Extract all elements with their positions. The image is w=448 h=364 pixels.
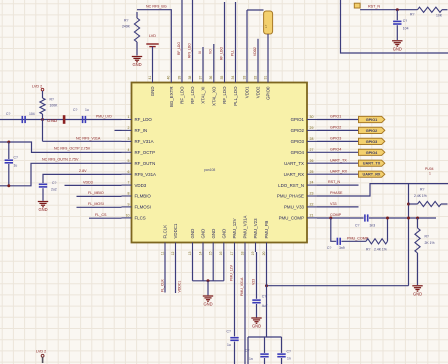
wire riser RF_LDO c bbox=[224, 2, 226, 73]
junction on RF_OCTP net bbox=[7, 141, 10, 144]
svg-text:RF_LDO: RF_LDO bbox=[177, 42, 181, 55]
svg-text:COMP: COMP bbox=[330, 213, 342, 217]
wire L1 to pin 31 bbox=[267, 34, 269, 73]
svg-text:NC RF9_OCTP 2.75V: NC RF9_OCTP 2.75V bbox=[54, 147, 91, 151]
pin 29 GPIO2 bbox=[307, 129, 317, 131]
svg-text:RF_LDO: RF_LDO bbox=[180, 86, 185, 104]
svg-text:RF9_V31A: RF9_V31A bbox=[135, 172, 157, 177]
svg-text:23: 23 bbox=[310, 192, 314, 196]
wire pin 23 PMU_PHASE to right edge bbox=[317, 184, 448, 196]
wire riser XTAL_XI bbox=[202, 47, 204, 73]
junction riser/R5 bbox=[407, 203, 410, 206]
svg-text:39: 39 bbox=[177, 76, 181, 80]
svg-text:BG_EXTR: BG_EXTR bbox=[169, 87, 174, 108]
svg-text:GND: GND bbox=[413, 291, 422, 296]
svg-text:GPIO3: GPIO3 bbox=[291, 139, 305, 144]
pin 37 XTAL_XI bbox=[202, 73, 204, 83]
wire pin 6 RF9_V31A to C4 bbox=[43, 174, 122, 183]
wire branch down bbox=[331, 218, 336, 241]
svg-text:RF_OUTN: RF_OUTN bbox=[135, 161, 156, 166]
svg-text:30: 30 bbox=[310, 115, 314, 119]
pin 40 BG_EXTR bbox=[170, 73, 172, 83]
wire riser RF_LDO b bbox=[192, 0, 194, 73]
svg-text:PLL_LDO: PLL_LDO bbox=[233, 86, 238, 106]
svg-text:19: 19 bbox=[251, 251, 255, 255]
wire return rail y285 bbox=[267, 285, 409, 287]
svg-text:18: 18 bbox=[240, 251, 244, 255]
svg-text:22: 22 bbox=[310, 203, 314, 207]
resistor R3 bbox=[418, 7, 443, 12]
pin 36 XTAL_XO bbox=[213, 73, 215, 83]
svg-text:RF_LDO: RF_LDO bbox=[222, 86, 227, 104]
wire pin 24 LDO_RST_N bbox=[317, 184, 359, 186]
svg-text:29: 29 bbox=[310, 126, 314, 130]
capacitor C3 bbox=[5, 159, 13, 161]
wire to port GPIO4 bbox=[317, 151, 359, 153]
svg-text:1: 1 bbox=[128, 115, 130, 119]
junction R3/C5 bbox=[396, 8, 399, 11]
capacitor C11 bbox=[277, 353, 285, 355]
svg-text:PMU_PHASE: PMU_PHASE bbox=[277, 194, 304, 199]
port GPIO2 bbox=[359, 127, 385, 133]
capacitor C8 bbox=[230, 337, 238, 339]
wire to pin 5 RF_OUTN bbox=[0, 163, 122, 186]
svg-text:FLCS: FLCS bbox=[135, 216, 146, 221]
svg-text:GPIO4: GPIO4 bbox=[291, 150, 305, 155]
wire to port UART_TX bbox=[317, 162, 359, 164]
pin 7 VDD3 bbox=[122, 184, 132, 186]
wire C11 tail bbox=[281, 358, 283, 364]
svg-text:RF_LDO: RF_LDO bbox=[190, 86, 195, 104]
svg-text:R?: R? bbox=[420, 188, 424, 192]
svg-text:FLMBIO: FLMBIO bbox=[135, 194, 152, 199]
svg-text:FL_CLK: FL_CLK bbox=[160, 278, 164, 292]
wire pin 15 gnd bbox=[212, 252, 214, 281]
wire to port GPIO1 bbox=[317, 119, 359, 121]
svg-text:R?: R? bbox=[410, 13, 414, 17]
ground below C9 bbox=[251, 318, 261, 323]
wire C8 down to edge bbox=[234, 342, 236, 364]
junction lower branch A bbox=[329, 217, 332, 220]
wire pin 9 FLMOSI bbox=[77, 206, 122, 208]
svg-text:XTAL_XO: XTAL_XO bbox=[211, 86, 216, 106]
wire stub pin 2 RF_IN bbox=[115, 129, 122, 131]
svg-text:41: 41 bbox=[148, 76, 152, 80]
pin 17 PMU_12V bbox=[234, 243, 236, 253]
svg-text:16: 16 bbox=[219, 251, 223, 255]
svg-text:PMU_12V: PMU_12V bbox=[232, 218, 237, 238]
wire R5 left lead bbox=[409, 203, 418, 205]
svg-text:C?: C? bbox=[227, 330, 231, 334]
wire riser PLL_LDO bbox=[235, 2, 237, 73]
resistor R6 bbox=[415, 228, 420, 253]
pin 41 GND bbox=[152, 73, 154, 83]
wire gnd merge bar bbox=[193, 280, 224, 282]
svg-text:12: 12 bbox=[171, 251, 175, 255]
svg-text:GND: GND bbox=[203, 302, 212, 307]
junction lower branch B bbox=[386, 217, 389, 220]
svg-text:C?: C? bbox=[6, 112, 10, 116]
wire R1 to rail bbox=[42, 114, 44, 120]
pin 15 GND bbox=[212, 243, 214, 253]
svg-text:GPIO3: GPIO3 bbox=[366, 140, 378, 144]
wire pin 13 gnd bbox=[192, 252, 194, 281]
svg-text:1u: 1u bbox=[85, 108, 89, 112]
pin 18 PMU_V31A bbox=[244, 243, 246, 253]
svg-text:2.4K 1%: 2.4K 1% bbox=[374, 247, 387, 251]
pin 22 PMU_V33 bbox=[307, 206, 317, 208]
svg-text:PLL: PLL bbox=[230, 50, 234, 56]
svg-text:NC RF9_BG: NC RF9_BG bbox=[146, 5, 167, 9]
svg-text:36: 36 bbox=[209, 76, 213, 80]
svg-text:R?: R? bbox=[50, 98, 54, 102]
svg-text:3n9: 3n9 bbox=[339, 246, 345, 250]
svg-text:LDO_RST_N: LDO_RST_N bbox=[278, 183, 304, 188]
svg-text:C?: C? bbox=[287, 350, 291, 354]
svg-text:17: 17 bbox=[230, 251, 234, 255]
wire pin 22 PMU_V33 bbox=[317, 206, 359, 208]
wire riser VDD1 bbox=[246, 10, 248, 73]
pin 5 RF_OUTN bbox=[122, 162, 132, 164]
svg-text:1n: 1n bbox=[287, 357, 291, 361]
svg-text:UART_RX: UART_RX bbox=[330, 169, 348, 173]
svg-text:27: 27 bbox=[310, 148, 314, 152]
pin 14 GND bbox=[202, 243, 204, 253]
svg-text:R?: R? bbox=[425, 234, 429, 238]
wire pin 8 FLMBIO bbox=[77, 195, 122, 197]
wire to pin 4 RF_OCTP bbox=[0, 142, 122, 152]
svg-text:25: 25 bbox=[310, 170, 314, 174]
svg-text:PMU_COMP: PMU_COMP bbox=[279, 216, 304, 221]
pin 34 PLL_LDO bbox=[235, 73, 237, 83]
svg-text:XI: XI bbox=[198, 51, 202, 54]
wire C9 to ground bbox=[256, 304, 258, 317]
svg-text:104: 104 bbox=[29, 112, 35, 116]
wire pin 21 PMU_COMP bbox=[317, 217, 364, 219]
capacitor C6 bbox=[364, 214, 366, 221]
svg-text:35: 35 bbox=[220, 76, 224, 80]
ground below chip bbox=[203, 296, 213, 301]
wire pin 18 PMU_V31A bbox=[244, 252, 246, 364]
svg-text:3: 3 bbox=[128, 137, 130, 141]
svg-text:GPIO2: GPIO2 bbox=[291, 128, 305, 133]
svg-text:RST_N: RST_N bbox=[328, 180, 340, 184]
ground below C5 bbox=[392, 41, 402, 46]
svg-text:11: 11 bbox=[160, 251, 164, 255]
svg-text:37: 37 bbox=[198, 76, 202, 80]
svg-text:GPIO0: GPIO0 bbox=[266, 86, 271, 100]
pin 39 RF_LDO bbox=[181, 73, 183, 83]
svg-text:V33: V33 bbox=[330, 202, 337, 206]
pin 24 LDO_RST_N bbox=[307, 184, 317, 186]
svg-text:LVD 2: LVD 2 bbox=[32, 84, 42, 88]
svg-text:10: 10 bbox=[126, 213, 130, 217]
junction node LVD2/R1 bbox=[41, 118, 44, 121]
pin 9 FLMOSI bbox=[122, 206, 132, 208]
wire L-shaped top right bbox=[341, 0, 448, 53]
svg-text:VDD2: VDD2 bbox=[253, 47, 257, 56]
svg-text:GND: GND bbox=[38, 207, 47, 212]
svg-text:PHASE: PHASE bbox=[330, 191, 343, 195]
wire VDD1 to L1 bbox=[247, 9, 264, 11]
svg-text:GPIO1: GPIO1 bbox=[366, 118, 378, 122]
op chip U1 body bbox=[132, 83, 308, 243]
svg-text:8: 8 bbox=[128, 192, 130, 196]
svg-text:UART_TX: UART_TX bbox=[363, 162, 381, 166]
capacitor C4 bbox=[39, 183, 47, 185]
pin 11 FLCLK bbox=[164, 243, 166, 253]
junction gnd merge bbox=[207, 279, 210, 282]
svg-text:GPIO1: GPIO1 bbox=[330, 115, 341, 119]
svg-text:9: 9 bbox=[128, 203, 130, 207]
svg-text:LVD: LVD bbox=[149, 34, 156, 38]
svg-text:R?: R? bbox=[366, 247, 370, 251]
svg-text:240K: 240K bbox=[122, 25, 131, 29]
svg-text:40: 40 bbox=[167, 76, 171, 80]
svg-text:UART_TX: UART_TX bbox=[284, 161, 304, 166]
wire C11 drop bbox=[281, 337, 283, 353]
wire pin 7 VDD3 bbox=[65, 184, 122, 186]
wire node to RF_V31A net bbox=[42, 120, 44, 142]
pin 1 RF_LDO bbox=[122, 119, 132, 121]
svg-text:38: 38 bbox=[188, 76, 192, 80]
svg-text:15: 15 bbox=[209, 251, 213, 255]
svg-text:C?: C? bbox=[52, 181, 56, 185]
resistor R5 bbox=[418, 201, 442, 206]
pin 8 FLMBIO bbox=[122, 195, 132, 197]
pin 20 PMU_FB bbox=[266, 243, 268, 253]
svg-text:RF_LDO: RF_LDO bbox=[135, 117, 153, 122]
svg-text:33: 33 bbox=[242, 76, 246, 80]
svg-text:GND: GND bbox=[47, 118, 58, 123]
svg-text:C?: C? bbox=[73, 108, 77, 112]
port UART_RX bbox=[359, 171, 385, 177]
junction return/PMU_FB bbox=[265, 284, 268, 287]
svg-text:LVD 2: LVD 2 bbox=[36, 349, 46, 353]
junction R6 top bbox=[416, 217, 419, 220]
svg-text:GND: GND bbox=[221, 229, 226, 239]
wire C3 top bbox=[8, 142, 10, 159]
wire riser VDD2 bbox=[257, 39, 259, 73]
pin 13 GND bbox=[192, 243, 194, 253]
svg-text:C?: C? bbox=[327, 246, 331, 250]
svg-text:GND: GND bbox=[252, 324, 261, 329]
svg-text:1u: 1u bbox=[227, 343, 231, 347]
svg-text:100K: 100K bbox=[50, 104, 59, 108]
svg-text:GPIO2: GPIO2 bbox=[366, 129, 378, 133]
wire C6 to R network bbox=[369, 217, 436, 219]
wire pin 16 gnd bbox=[223, 252, 225, 281]
svg-text:PMU_LVD: PMU_LVD bbox=[96, 115, 112, 119]
resistor R1 bbox=[40, 98, 45, 114]
svg-text:V23: V23 bbox=[251, 279, 255, 285]
wire vertical riser x408 bbox=[408, 184, 410, 286]
wire C10 drop bbox=[264, 337, 266, 353]
wire R2 to ground bbox=[136, 42, 138, 56]
svg-text:2: 2 bbox=[128, 126, 130, 130]
pin 6 RF9_V31A bbox=[122, 173, 132, 175]
wire pin 11 FLCLK bbox=[164, 252, 166, 293]
wire to port GPIO3 bbox=[317, 140, 359, 142]
capacitor C10 bbox=[260, 353, 268, 355]
pin 38 RF_LDO bbox=[192, 73, 194, 83]
svg-text:NC RF9_V31A: NC RF9_V31A bbox=[76, 136, 101, 140]
pin 3 RF_V31A bbox=[122, 140, 132, 142]
svg-text:C?: C? bbox=[262, 294, 266, 298]
svg-text:VDDC1: VDDC1 bbox=[178, 281, 182, 293]
svg-text:PMU_V31A: PMU_V31A bbox=[240, 277, 244, 296]
junction on RF_OUTN net bbox=[7, 184, 10, 187]
svg-text:PU04: PU04 bbox=[425, 167, 434, 171]
svg-text:FL_CS: FL_CS bbox=[95, 213, 107, 217]
svg-text:pan108: pan108 bbox=[204, 168, 215, 172]
capacitor C5 bbox=[393, 20, 401, 22]
wire LVD2 to R1 bbox=[42, 91, 44, 98]
svg-text:VDDC1: VDDC1 bbox=[173, 223, 178, 238]
wire R6 top lead bbox=[417, 218, 419, 228]
pin 27 GPIO4 bbox=[307, 151, 317, 153]
pin 35 RF_LDO bbox=[224, 73, 226, 83]
svg-text:PMU_FB: PMU_FB bbox=[264, 221, 269, 239]
pin 32 VDD2 bbox=[257, 73, 259, 83]
svg-text:2.4K 1%: 2.4K 1% bbox=[414, 194, 427, 198]
ground below C4 bbox=[38, 202, 48, 207]
svg-text:GND: GND bbox=[393, 46, 402, 51]
wire to port UART_RX bbox=[317, 173, 359, 175]
capacitor C1 plates bbox=[21, 116, 23, 123]
svg-text:FLMOSI: FLMOSI bbox=[135, 205, 151, 210]
svg-text:1: 1 bbox=[429, 172, 431, 176]
pin 30 GPIO1 bbox=[307, 119, 317, 121]
svg-text:PMU_V31A: PMU_V31A bbox=[243, 215, 248, 238]
svg-text:26: 26 bbox=[310, 159, 314, 163]
svg-text:RST_N: RST_N bbox=[368, 4, 380, 8]
svg-text:XO: XO bbox=[209, 49, 213, 54]
wire R6 to ground bbox=[417, 253, 419, 285]
svg-text:13: 13 bbox=[188, 251, 192, 255]
svg-text:21: 21 bbox=[310, 213, 314, 217]
ferrite bead L1 bbox=[264, 11, 273, 34]
svg-text:1u: 1u bbox=[14, 164, 18, 168]
wire R2 to pin 40 BG_EXTR bbox=[137, 10, 171, 73]
wire to pin 3 RF_V31A bbox=[43, 140, 122, 142]
wire pin 12 VDDC1 bbox=[175, 252, 177, 293]
wire C7 to R4 bbox=[341, 240, 366, 242]
wire riser XTAL_XO bbox=[213, 44, 215, 73]
pin 23 PMU_PHASE bbox=[307, 195, 317, 197]
svg-text:24: 24 bbox=[310, 181, 314, 185]
pin 25 UART_RX bbox=[307, 173, 317, 175]
resistor R2 bbox=[134, 18, 139, 42]
svg-text:3n3: 3n3 bbox=[370, 223, 376, 227]
pin 12 VDDC1 bbox=[175, 243, 177, 253]
wire branch up bbox=[387, 218, 389, 241]
svg-text:C?: C? bbox=[403, 19, 407, 23]
pin 4 RF_OCTP bbox=[122, 151, 132, 153]
svg-text:2u2: 2u2 bbox=[51, 187, 57, 191]
svg-text:C?: C? bbox=[245, 349, 249, 353]
svg-text:UART_RX: UART_RX bbox=[363, 173, 381, 177]
pin 10 FLCS bbox=[122, 217, 132, 219]
wire R5 right lead bbox=[441, 203, 448, 205]
svg-text:GND: GND bbox=[150, 87, 155, 97]
ground below R6 bbox=[412, 286, 422, 291]
svg-text:NC RF9_OUTN 2.75V: NC RF9_OUTN 2.75V bbox=[42, 158, 79, 162]
wire C5 to ground bbox=[396, 25, 398, 40]
svg-text:31: 31 bbox=[263, 76, 267, 80]
no-ERC marker / small port bbox=[354, 3, 360, 8]
svg-text:GND: GND bbox=[201, 229, 206, 239]
svg-text:L?: L? bbox=[264, 24, 268, 28]
wire pin 10 FLCS bbox=[89, 217, 122, 219]
svg-text:20: 20 bbox=[262, 251, 266, 255]
svg-text:PMU_12V: PMU_12V bbox=[229, 264, 233, 281]
svg-text:GPIO3: GPIO3 bbox=[330, 137, 341, 141]
svg-text:FL_MBIO: FL_MBIO bbox=[88, 191, 104, 195]
pin 16 GND bbox=[223, 243, 225, 253]
svg-text:GPIO4: GPIO4 bbox=[366, 151, 378, 155]
svg-text:32: 32 bbox=[253, 76, 257, 80]
svg-text:GPIO4: GPIO4 bbox=[330, 147, 341, 151]
svg-text:UART_TX: UART_TX bbox=[330, 158, 347, 162]
pin 19 PMU_V23 bbox=[255, 243, 257, 253]
capacitor C7 bbox=[336, 238, 338, 245]
svg-text:XTAL_XI: XTAL_XI bbox=[201, 87, 206, 104]
wire R2 top lead bbox=[136, 12, 138, 18]
port GPIO1 bbox=[359, 116, 385, 122]
svg-text:FLCLK: FLCLK bbox=[163, 225, 168, 239]
svg-text:RF_LDO: RF_LDO bbox=[219, 47, 223, 60]
svg-text:RF_V31A: RF_V31A bbox=[135, 139, 154, 144]
capacitor C9 bbox=[252, 299, 260, 301]
pin 33 VDD1 bbox=[246, 73, 248, 83]
svg-text:R?: R? bbox=[124, 19, 128, 23]
wire C3 bottom bbox=[8, 164, 10, 186]
capacitor C2 plates bbox=[82, 116, 84, 123]
wire pin 17 PMU_12V upper bbox=[234, 252, 236, 336]
svg-text:14: 14 bbox=[198, 251, 202, 255]
svg-text:PMU_V23: PMU_V23 bbox=[253, 218, 258, 239]
svg-text:7: 7 bbox=[128, 181, 130, 185]
svg-text:RF_IN: RF_IN bbox=[135, 128, 148, 133]
svg-text:GND: GND bbox=[132, 62, 141, 67]
svg-text:PMU_COMP: PMU_COMP bbox=[347, 236, 369, 240]
svg-text:VDD1: VDD1 bbox=[245, 86, 250, 98]
ground below R2 bbox=[132, 57, 142, 62]
svg-text:C?: C? bbox=[14, 156, 18, 160]
pin 28 GPIO3 bbox=[307, 140, 317, 142]
svg-text:C?: C? bbox=[355, 223, 359, 227]
wire R3 right lead bbox=[442, 9, 448, 11]
svg-text:4: 4 bbox=[128, 148, 130, 152]
svg-text:28: 28 bbox=[310, 137, 314, 141]
svg-text:GND: GND bbox=[211, 229, 216, 239]
svg-text:VDD3: VDD3 bbox=[135, 183, 147, 188]
wire net PMU_LVD rail to pin 1 bbox=[0, 119, 122, 121]
wire merge to ground bbox=[207, 281, 209, 296]
wire to port GPIO2 bbox=[317, 129, 359, 131]
svg-text:VDD3: VDD3 bbox=[83, 180, 93, 184]
svg-text:GND: GND bbox=[190, 229, 195, 239]
resistor R4 bbox=[366, 239, 388, 244]
svg-text:5: 5 bbox=[128, 159, 130, 163]
svg-text:2.8V: 2.8V bbox=[79, 169, 87, 173]
port GPIO4 bbox=[359, 149, 385, 155]
port GPIO3 bbox=[359, 138, 385, 144]
svg-text:34: 34 bbox=[231, 76, 235, 80]
wire LVD to pin 41 bbox=[152, 47, 154, 73]
wire C4 to ground bbox=[42, 188, 44, 201]
